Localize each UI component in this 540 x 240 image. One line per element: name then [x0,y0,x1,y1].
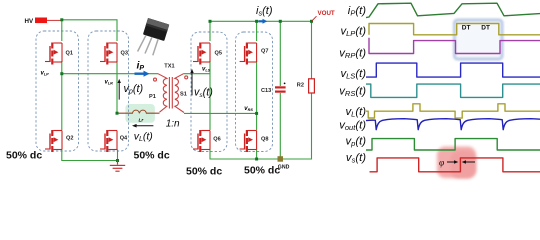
svg-text:TX1: TX1 [164,64,174,70]
svg-text:vout(t): vout(t) [339,120,366,133]
svg-text:vp(t): vp(t) [124,83,144,96]
svg-text:Q1: Q1 [66,51,73,57]
svg-text:φ: φ [439,159,444,169]
svg-text:vL(t): vL(t) [134,131,153,144]
svg-text:HV: HV [25,18,34,25]
svg-text:DT: DT [481,25,490,32]
svg-text:P1: P1 [149,94,156,100]
svg-text:Q4: Q4 [120,136,128,142]
svg-text:vLR: vLR [105,80,114,86]
svg-text:Q5: Q5 [215,51,222,57]
svg-text:Q3: Q3 [121,51,128,57]
svg-text:50% dc: 50% dc [244,165,280,177]
svg-text:Q8: Q8 [261,137,268,143]
svg-text:iP(t): iP(t) [348,5,366,18]
svg-text:vRP(t): vRP(t) [339,48,366,61]
svg-text:vp(t): vp(t) [346,136,367,149]
svg-text:vRS(t): vRS(t) [339,86,366,99]
svg-text:is(t): is(t) [256,5,273,18]
svg-text:vLS(t): vLS(t) [340,68,366,81]
svg-text:1:n: 1:n [166,119,180,130]
svg-text:vLP(t): vLP(t) [340,26,366,39]
svg-text:R2: R2 [297,83,304,89]
svg-text:50% dc: 50% dc [134,150,170,162]
svg-text:vLP: vLP [41,71,50,77]
svg-text:vs(t): vs(t) [346,152,366,165]
svg-text:C13: C13 [261,88,271,94]
svg-text:Q7: Q7 [261,49,268,55]
svg-text:Q6: Q6 [213,137,220,143]
svg-text:vRS: vRS [244,106,253,112]
svg-text:vs(t): vs(t) [194,87,213,100]
svg-text:50% dc: 50% dc [6,150,42,162]
svg-text:DT: DT [462,25,471,32]
svg-text:VOUT: VOUT [318,10,335,17]
svg-text:vLS: vLS [202,67,211,73]
svg-text:iP: iP [137,60,145,73]
svg-text:Q2: Q2 [66,136,73,142]
svg-text:vL(t): vL(t) [346,106,367,119]
svg-text:50% dc: 50% dc [186,166,222,178]
svg-text:S1: S1 [180,92,187,98]
